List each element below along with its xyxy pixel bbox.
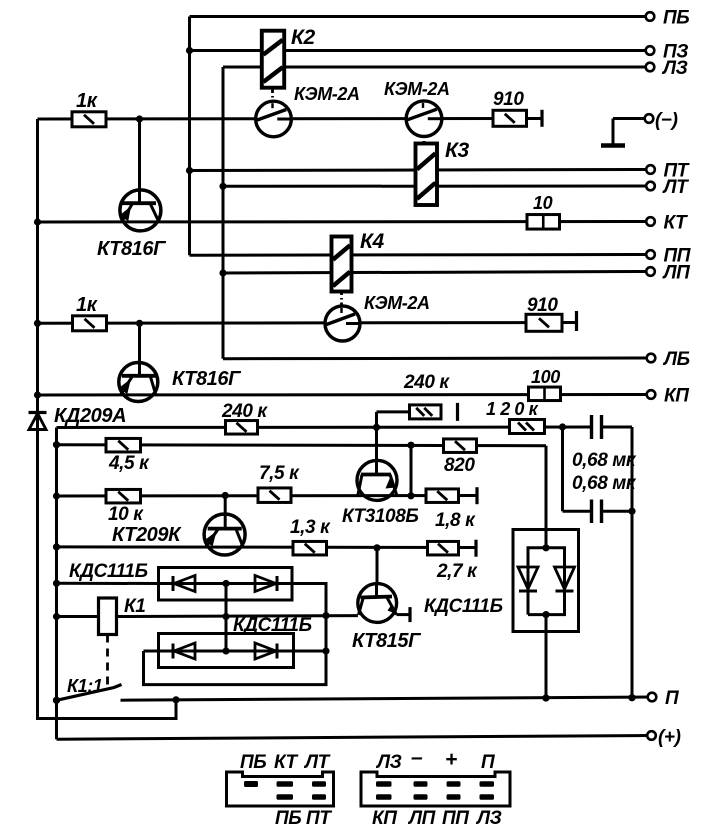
svg-text:910: 910	[527, 295, 558, 316]
svg-text:1,3 к: 1,3 к	[290, 517, 331, 538]
svg-text:ЛП: ЛП	[662, 263, 691, 284]
svg-text:ПБ: ПБ	[663, 8, 689, 29]
svg-text:ЛТ: ЛТ	[303, 752, 331, 773]
relay К2 coil	[262, 26, 316, 88]
terminal (+)	[647, 727, 680, 748]
svg-text:К1:1: К1:1	[67, 676, 103, 696]
resistor R3 910	[493, 89, 542, 127]
wire net ЛЗ line	[223, 66, 646, 69]
svg-text:(+): (+)	[658, 727, 681, 748]
svg-text:10: 10	[533, 193, 553, 213]
svg-text:10 к: 10 к	[108, 504, 144, 525]
wire VT5 emitter stub	[397, 607, 411, 622]
wire VT1 base vertical	[138, 119, 141, 204]
wire net ПЗ line	[186, 47, 646, 54]
resistor R12 7,5к	[258, 463, 300, 502]
svg-text:КЭМ-2А: КЭМ-2А	[364, 293, 430, 313]
wire capacitor bus right vertical	[628, 427, 635, 701]
wire upper block to base node	[292, 584, 330, 685]
node bus A vertical (ПБ-ПЗ-ПТ-ПП bus)	[188, 17, 191, 256]
svg-text:П: П	[665, 688, 679, 709]
relay К4 coil	[332, 230, 385, 292]
wire 10k-7,5k line	[57, 492, 478, 500]
terminal ЛП	[646, 263, 690, 284]
wire VT5 collector vertical	[376, 548, 379, 585]
svg-text:1к: 1к	[76, 90, 98, 112]
svg-text:ЛП: ЛП	[407, 808, 436, 829]
reed switch КЭМ-2А S2	[384, 79, 450, 137]
transistor VT1 КТ816Г	[97, 190, 167, 260]
capacitor C2 0,68 мк	[572, 473, 637, 523]
wire net (+) line	[57, 736, 648, 740]
svg-text:7,5 к: 7,5 к	[259, 463, 300, 484]
svg-text:240 к: 240 к	[221, 401, 268, 422]
wire 240k-120k line	[57, 423, 633, 431]
connector X1 labels bottom	[275, 808, 332, 829]
diode VD1 КД209А	[29, 405, 127, 430]
svg-text:(−): (−)	[655, 110, 678, 131]
wire (−) to ground	[613, 119, 645, 145]
diode block VD3 КДС111Б (lower)	[159, 615, 312, 668]
wire VT3 base vertical	[224, 496, 227, 530]
wire VT2 base vertical	[138, 323, 141, 376]
svg-text:КДС111Б: КДС111Б	[233, 615, 312, 636]
label К1:1	[67, 676, 103, 696]
diode block VD4 КДС111Б (right)	[424, 530, 579, 632]
wire diode box inner loop	[528, 548, 565, 618]
wire net ЛТ line	[219, 183, 646, 190]
svg-text:0,68 мк: 0,68 мк	[572, 450, 637, 471]
resistor R1 1к	[72, 90, 106, 127]
svg-text:К4: К4	[360, 230, 385, 253]
wire left rail	[34, 119, 176, 719]
svg-text:К1: К1	[124, 596, 145, 617]
svg-text:К2: К2	[291, 26, 316, 49]
resistor R9 120к	[486, 399, 545, 434]
svg-text:ПБ: ПБ	[275, 808, 301, 829]
svg-text:КДС111Б: КДС111Б	[424, 596, 503, 617]
wire diode box КДС111Б entry	[542, 531, 549, 552]
svg-text:ЛЗ: ЛЗ	[375, 752, 402, 773]
svg-text:1,8 к: 1,8 к	[435, 510, 476, 531]
resistor R4 910	[526, 295, 577, 331]
svg-text:КДС111Б: КДС111Б	[69, 561, 148, 582]
svg-text:КТ3108Б: КТ3108Б	[342, 506, 418, 527]
reed switch КЭМ-2А S3	[325, 293, 430, 341]
wire 820 junction vertical	[410, 445, 413, 496]
svg-text:КП: КП	[664, 386, 689, 407]
terminal ЛБ	[647, 349, 690, 370]
transistor VT2 КТ816Г	[119, 363, 243, 402]
wire 4,5k-820 line	[57, 442, 547, 449]
ground chassis	[601, 143, 625, 148]
svg-text:100: 100	[531, 367, 560, 387]
terminal ПП	[646, 246, 691, 267]
wire net ПТ line	[186, 167, 646, 174]
transistor VT3 КТ209К	[112, 514, 245, 555]
terminal ЛЗ	[646, 58, 688, 79]
wire VT4 base vertical	[377, 412, 410, 475]
terminal ПТ	[646, 161, 690, 182]
wire К1 coil line	[57, 614, 358, 618]
svg-text:КТ209К: КТ209К	[112, 524, 182, 546]
diode block VD2 КДС111Б (upper)	[69, 561, 292, 600]
wire capacitor loop left	[563, 427, 633, 511]
wire lower block right	[294, 650, 327, 653]
connector X1 labels top	[240, 752, 331, 773]
wire rail 2 vertical	[53, 428, 60, 740]
svg-text:КТ815Г: КТ815Г	[352, 630, 422, 652]
terminal П	[648, 688, 679, 709]
svg-text:КТ: КТ	[274, 752, 299, 773]
svg-text:КТ: КТ	[664, 213, 689, 234]
wire net ЛП line	[219, 269, 646, 276]
svg-text:1к: 1к	[76, 294, 98, 316]
resistor R6 100	[529, 367, 561, 401]
mechanical link К1 dash	[106, 635, 109, 690]
terminal ЛТ	[646, 177, 689, 198]
svg-text:ЛЗ: ЛЗ	[661, 58, 688, 79]
resistor R7 240к	[221, 401, 268, 434]
transistor VT4 КТ3108Б	[342, 460, 418, 527]
svg-text:4,5 к: 4,5 к	[108, 453, 150, 474]
resistor R14 820	[444, 439, 477, 476]
svg-text:1 2 0 к: 1 2 0 к	[486, 399, 539, 419]
svg-text:ЛБ: ЛБ	[662, 349, 690, 370]
wire net ПБ top line	[190, 15, 646, 18]
wire diode blocks center link	[222, 584, 229, 655]
svg-text:П: П	[481, 752, 495, 773]
wire net ПП line	[190, 253, 647, 257]
connector X2 housing	[361, 772, 510, 806]
svg-text:–: –	[411, 746, 423, 769]
svg-text:КТ816Г: КТ816Г	[97, 238, 167, 260]
connector X1 housing	[227, 772, 334, 806]
mechanical link К2 dash	[271, 88, 274, 103]
terminal КТ	[646, 213, 688, 234]
relay К1 coil	[99, 596, 146, 635]
svg-text:910: 910	[493, 89, 524, 110]
resistor R13 1,3к	[290, 517, 331, 555]
wire 820 to diode box vertical	[545, 446, 548, 531]
svg-text:ЛЗ: ЛЗ	[475, 808, 502, 829]
relay К3 coil	[416, 139, 470, 205]
svg-text:КП: КП	[372, 808, 397, 829]
terminal (−)	[645, 110, 678, 131]
svg-text:2,7 к: 2,7 к	[436, 561, 478, 582]
wire upper diode block left	[57, 582, 160, 585]
switch К1:1 arm	[53, 685, 122, 704]
wire net ЛБ line	[223, 357, 646, 361]
svg-text:ПТ: ПТ	[306, 808, 332, 829]
svg-text:ПП: ПП	[442, 808, 469, 829]
wire 1,3k-2,7k line	[57, 544, 477, 551]
wire base line VT2 (1к R2 net)	[38, 320, 577, 327]
wire lower diode block internal	[144, 650, 294, 653]
mechanical link К4 dash	[340, 290, 343, 307]
svg-text:+: +	[445, 748, 457, 771]
resistor R11 10к	[106, 489, 144, 525]
svg-text:КЭМ-2А: КЭМ-2А	[294, 84, 360, 104]
resistor R8 240к	[403, 372, 458, 421]
svg-text:К3: К3	[445, 139, 470, 162]
capacitor C1 0,68 мк	[572, 415, 637, 471]
svg-text:КТ816Г: КТ816Г	[172, 368, 242, 390]
connector X2 labels top	[375, 746, 495, 773]
terminal КП	[647, 386, 690, 407]
svg-text:ЛТ: ЛТ	[662, 177, 690, 198]
svg-text:240 к: 240 к	[403, 372, 450, 393]
wire diode box exit vertical	[545, 615, 548, 698]
wire upper diode block internal	[159, 580, 293, 587]
wire lower block wrap	[144, 651, 327, 685]
wire net П line	[121, 694, 653, 703]
wire base line VT1 (1к R1 net)	[38, 115, 543, 122]
svg-text:820: 820	[444, 455, 475, 476]
resistor R15 1,8к	[426, 487, 477, 531]
transistor VT5 КТ815Г	[352, 584, 422, 652]
node bus B vertical (ЛЗ-ЛТ-ЛП-ЛБ bus)	[222, 67, 225, 359]
svg-text:0,68 мк: 0,68 мк	[572, 473, 637, 494]
wire net КП line	[38, 393, 647, 397]
resistor R5 10	[527, 193, 560, 229]
svg-text:ПБ: ПБ	[240, 752, 266, 773]
resistor R2 1к	[73, 294, 107, 331]
svg-text:КД209А: КД209А	[54, 405, 126, 427]
resistor R10 4,5к	[106, 438, 150, 474]
mechanical link К3 dash	[423, 134, 426, 145]
terminal ПЗ	[646, 42, 689, 63]
wire net КТ line	[38, 220, 647, 224]
resistor R16 2,7к	[428, 540, 479, 582]
reed switch КЭМ-2А S1	[256, 84, 360, 137]
connector X2 labels bottom	[372, 808, 502, 829]
terminal ПБ	[646, 8, 690, 29]
svg-text:КЭМ-2А: КЭМ-2А	[384, 79, 450, 99]
